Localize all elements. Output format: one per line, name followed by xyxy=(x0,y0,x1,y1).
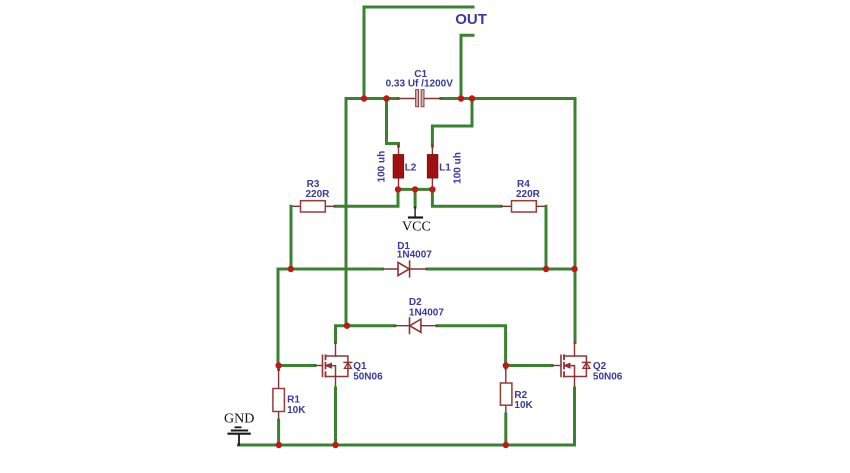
svg-text:10K: 10K xyxy=(287,405,306,416)
wire R2 to ground rail xyxy=(504,414,507,445)
wire ground rail xyxy=(238,444,574,447)
svg-text:1N4007: 1N4007 xyxy=(397,250,432,261)
inductor L2 xyxy=(377,145,417,189)
wire tank bus right segment xyxy=(441,99,575,343)
svg-text:220R: 220R xyxy=(516,189,541,200)
svg-text:50N06: 50N06 xyxy=(593,372,623,383)
wire D2 row right xyxy=(437,326,506,366)
wire D1 row right xyxy=(427,268,575,271)
diode D2 xyxy=(395,297,445,334)
svg-text:100 uh: 100 uh xyxy=(452,152,463,184)
svg-text:VCC: VCC xyxy=(402,219,431,234)
node D1-R4 xyxy=(543,266,549,272)
wire Q2 source to ground rail xyxy=(573,388,576,445)
wire VCC feed left to R3 xyxy=(335,189,398,206)
power VCC symbol xyxy=(402,207,431,234)
node rail-R1 xyxy=(276,442,282,448)
wire R3 to D1 row xyxy=(290,206,293,269)
resistor R2 xyxy=(500,366,533,415)
wire L1 branch from bus xyxy=(432,99,472,147)
wire OUT terminal 2 xyxy=(461,35,473,98)
node bus-OUT1 xyxy=(361,95,367,101)
node D2-tankleft xyxy=(344,323,350,329)
svg-text:Q2: Q2 xyxy=(593,361,607,372)
node rail-Q1src xyxy=(332,442,338,448)
node D1-Q2drain xyxy=(571,266,577,272)
diode D1 xyxy=(382,241,432,277)
resistor R1 xyxy=(273,366,306,421)
wire VCC stub xyxy=(414,189,417,207)
node Q1-gate xyxy=(275,362,281,368)
transistor Q1 xyxy=(315,343,383,389)
svg-text:R1: R1 xyxy=(287,395,300,406)
wire D2 row left xyxy=(336,326,395,343)
svg-text:GND: GND xyxy=(224,412,254,427)
svg-text:50N06: 50N06 xyxy=(353,372,383,383)
inductor L1 xyxy=(427,145,463,189)
node rail-R2 xyxy=(503,442,509,448)
svg-text:10K: 10K xyxy=(514,400,533,411)
svg-text:Q1: Q1 xyxy=(353,361,367,372)
svg-text:220R: 220R xyxy=(306,189,331,200)
wire OUT terminal 1 top xyxy=(364,7,473,99)
capacitor C1 xyxy=(386,69,454,107)
svg-text:1N4007: 1N4007 xyxy=(409,308,444,319)
resistor R4 xyxy=(501,179,546,212)
node VCC-L1 xyxy=(429,186,435,192)
wire tank bus left segment xyxy=(346,99,398,326)
node VCC-center xyxy=(412,186,418,192)
node Q2-gate xyxy=(503,362,509,368)
resistor R3 xyxy=(291,179,335,212)
node VCC-L2 xyxy=(395,186,401,192)
node bus-L1 xyxy=(469,95,475,101)
wire VCC feed right to R4 xyxy=(432,189,501,206)
wire VCC node horizontal xyxy=(397,188,435,191)
transistor Q2 xyxy=(552,343,623,389)
node bus-OUT2 xyxy=(458,95,464,101)
wire D1 row left xyxy=(278,269,382,366)
svg-text:L1: L1 xyxy=(439,163,451,174)
wire R4 to D1 row xyxy=(545,206,548,269)
wire Q2 gate xyxy=(506,364,552,367)
wire Q1 source to ground rail xyxy=(334,388,337,445)
node bus-L2 xyxy=(383,95,389,101)
ground GND symbol xyxy=(224,412,254,445)
wire Q1 gate xyxy=(278,364,315,367)
svg-text:100 uh: 100 uh xyxy=(377,151,388,183)
svg-text:OUT: OUT xyxy=(455,11,487,28)
svg-text:0.33 Uf /1200V: 0.33 Uf /1200V xyxy=(386,79,454,90)
node D1-R3 xyxy=(288,266,294,272)
wire R1 to ground rail xyxy=(277,420,280,445)
svg-text:L2: L2 xyxy=(405,163,417,174)
svg-text:D2: D2 xyxy=(409,297,422,308)
wire L2 branch from bus xyxy=(387,99,399,147)
